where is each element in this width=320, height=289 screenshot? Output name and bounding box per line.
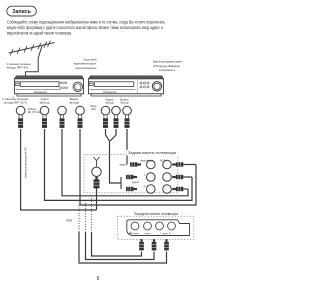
- svg-text:видео: видео: [144, 233, 151, 235]
- svg-text:Передняя панель телевизора: Передняя панель телевизора: [134, 212, 178, 216]
- svg-text:Кассетный: Кассетный: [84, 58, 97, 62]
- svg-text:(выход): (выход): [40, 101, 50, 105]
- svg-text:аудио: аудио: [132, 181, 139, 184]
- svg-text:Соблюдайте схему подсоединения: Соблюдайте схему подсоединения изображен…: [7, 20, 166, 25]
- svg-text:6: 6: [97, 276, 100, 282]
- svg-text:R: R: [144, 185, 146, 188]
- svg-text:(выход): (выход): [69, 101, 79, 105]
- svg-text:Panasonic: Panasonic: [34, 91, 48, 94]
- svg-text:RF (75 Ом): RF (75 Ом): [28, 110, 41, 114]
- svg-text:AV IN: AV IN: [160, 159, 166, 162]
- svg-text:видеовход: видеовход: [141, 159, 153, 162]
- svg-text:какую-либо программу с другого: какую-либо программу с другого кассетног…: [7, 25, 164, 30]
- svg-text:Кабель коаксиальный RF: Кабель коаксиальный RF: [24, 147, 28, 178]
- svg-text:(AV): (AV): [91, 108, 96, 111]
- svg-text:воспроизведение: воспроизведение: [75, 67, 97, 70]
- svg-text:входу (RF IN): входу (RF IN): [7, 66, 28, 70]
- svg-text:(вход): (вход): [106, 101, 114, 105]
- svg-text:видеосигналов на задней панели: видеосигналов на задней панели телевизор…: [7, 31, 72, 36]
- svg-text:Задняя панель телевизора: Задняя панель телевизора: [128, 151, 176, 155]
- svg-text:S видео: S видео: [131, 233, 140, 235]
- svg-text:(вход): (вход): [121, 101, 129, 105]
- svg-text:Panasonic: Panasonic: [104, 91, 118, 94]
- svg-text:Запись: Запись: [12, 9, 31, 15]
- svg-text:(запись): (запись): [159, 68, 175, 72]
- svg-text:выходу (RF OUT): выходу (RF OUT): [4, 101, 27, 105]
- svg-text:видео: видео: [120, 163, 127, 166]
- svg-text:Записывающее: Записывающее: [153, 59, 183, 63]
- svg-text:L аудио R: L аудио R: [161, 233, 171, 235]
- svg-text:или: или: [67, 218, 73, 222]
- svg-text:видеомагнитофон-: видеомагнитофон-: [74, 62, 97, 66]
